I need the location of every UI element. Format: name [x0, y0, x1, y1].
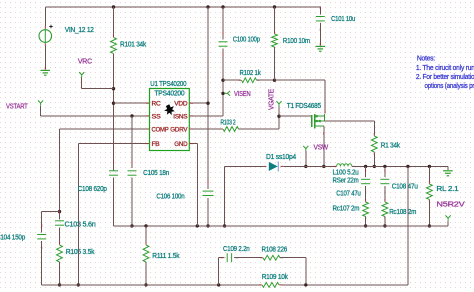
label R105 3.5k [66, 247, 95, 256]
label C107 47u [336, 189, 361, 198]
svg-text:C103 5.6n: C103 5.6n [65, 220, 96, 229]
wire FB net [78, 144, 149, 285]
wire drain lead [323, 126, 325, 166]
junction RL top [428, 165, 431, 168]
ground C101 [316, 42, 326, 51]
wire C101 top lead [319, 7, 321, 14]
capacitor C103 [55, 211, 64, 236]
svg-text:R1 34k: R1 34k [381, 141, 400, 150]
svg-text:1. The cirucit only runs: 1. The cirucit only runs [416, 63, 474, 72]
wire bottom fb [42, 284, 408, 286]
pin GDRV [170, 127, 188, 134]
wire C108b top lead [113, 165, 115, 171]
wire tee to C104 [42, 212, 60, 233]
label VISEN [234, 89, 251, 98]
wire R102 left lead [223, 79, 240, 81]
cursor arrow [164, 104, 175, 115]
wire R111 top lead [145, 226, 147, 244]
wire C108 top lead [384, 166, 386, 177]
resistor R111 [143, 242, 149, 265]
wire diode to VSW [284, 165, 306, 167]
label C101 10u [331, 14, 355, 23]
capacitor C104 [37, 224, 46, 249]
capacitor C105 [128, 161, 137, 186]
wire VIN top lead [44, 7, 46, 29]
label T1 FDS4685 [287, 101, 321, 110]
junction top rail / R101 [112, 5, 115, 8]
node VRC stub [79, 72, 84, 77]
capacitor C101 [316, 6, 325, 31]
svg-text:D1 ss10p4: D1 ss10p4 [266, 152, 296, 161]
wire VIN bottom lead [44, 43, 46, 69]
junction FB/bottom wire [77, 283, 80, 286]
capacitor C106 [203, 181, 214, 206]
resistor R103 [220, 127, 242, 132]
svg-text:VDD: VDD [174, 101, 188, 108]
wire fb tap vertical [407, 166, 409, 285]
junction R105/bottom wire [58, 283, 61, 286]
junction gate/VGATE [277, 115, 280, 118]
svg-text:VSTART: VSTART [6, 102, 28, 111]
wire RL top lead [428, 166, 430, 182]
svg-text:Notes:: Notes: [417, 53, 435, 62]
junction drain/VSW line [322, 165, 325, 168]
svg-text:RSer 22m: RSer 22m [333, 175, 359, 184]
junction GND pin line [196, 224, 199, 227]
svg-text:N5R2V: N5R2V [436, 200, 464, 209]
junction C105/gnd line [130, 224, 133, 227]
wire ISNS pin [189, 115, 223, 117]
junction RC/R101 [112, 102, 115, 105]
svg-text:R102 1k: R102 1k [240, 68, 261, 77]
svg-text:Rc107 2m: Rc107 2m [333, 204, 360, 213]
label D1 ss10p4 [266, 152, 296, 161]
junction C109 left [217, 283, 220, 286]
svg-text:VSW: VSW [314, 143, 329, 152]
svg-text:VISEN: VISEN [234, 89, 251, 98]
wire gnd line [114, 225, 430, 227]
junction RL bottom [428, 224, 431, 227]
label VSTART [6, 102, 28, 111]
resistor Rc107 [363, 199, 369, 220]
svg-text:R108 226: R108 226 [262, 245, 288, 254]
wire VRC to R101 line [82, 78, 114, 89]
wire C105 bottom lead [131, 178, 133, 226]
label C105 18n [143, 168, 169, 177]
svg-text:R100 10m: R100 10m [283, 36, 310, 45]
resistor R108 [260, 255, 283, 260]
junction R111 top [144, 224, 147, 227]
label R102 1k [240, 68, 261, 77]
svg-text:VRC: VRC [78, 57, 93, 66]
label RL 2.1 [436, 184, 458, 193]
label TPS40200 value [154, 90, 184, 97]
node VISEN stub [221, 91, 230, 96]
label C104 150p [0, 232, 25, 241]
label C108 47u [392, 182, 418, 191]
wire R108 right lead [280, 258, 306, 285]
pin RC [152, 101, 162, 108]
label U1 TPS40200 [150, 79, 186, 88]
wire C103 to R105 [59, 227, 61, 243]
label R108 226 [262, 245, 288, 254]
resistor R102 [239, 78, 260, 83]
svg-text:SS: SS [152, 113, 161, 120]
label R111 1.5k [152, 251, 179, 260]
wire R101 top lead [113, 7, 115, 36]
pin ISNS [173, 113, 187, 120]
label R100 10m [283, 36, 310, 45]
svg-text:options (analysis pro: options (analysis pro [425, 81, 474, 90]
wire Rc108 bottom lead [384, 217, 386, 226]
svg-text:Rc108 2m: Rc108 2m [389, 207, 416, 216]
wire R111 bottom lead [145, 262, 147, 285]
svg-text:C109 2.2n: C109 2.2n [223, 244, 250, 253]
capacitor C108 [380, 169, 389, 194]
inductor L100 [334, 164, 355, 167]
node VGATE stub [276, 101, 281, 114]
junction C108 top [383, 165, 386, 168]
wire C109 to R108 [234, 257, 262, 259]
node N5R2V stub [446, 215, 451, 220]
junction R102/C100 line [221, 79, 224, 82]
label Rc108 2m [389, 207, 416, 216]
wire R105 bottom lead [59, 262, 61, 285]
wire C108b bottom lead [113, 178, 115, 226]
wire R103 to gate corner [239, 116, 280, 129]
wire Rc107 bottom lead [365, 217, 367, 226]
svg-text:C107 47u: C107 47u [336, 189, 361, 198]
junction COMP tee [58, 210, 61, 213]
wire C101 bottom lead [319, 23, 321, 45]
transistor T1 FDS4685 [312, 114, 325, 129]
note title [417, 53, 435, 62]
svg-text:VIN_12 12: VIN_12 12 [65, 25, 94, 34]
junction R1/out line [373, 165, 376, 168]
wire R100 bottom lead [274, 47, 276, 80]
junction Rc107 bottom [364, 224, 367, 227]
junction VRC/R101 [112, 87, 115, 90]
wire C105 top lead [131, 116, 133, 168]
voltage source VIN_12 [39, 25, 53, 44]
pin GND [174, 141, 188, 148]
capacitor C109 [221, 253, 239, 262]
diode D1 [264, 161, 284, 171]
resistor RL [427, 181, 433, 203]
label C108 620p [78, 184, 107, 193]
junction top rail / VDD line [206, 5, 209, 8]
junction riser/gnd line [223, 224, 226, 227]
junction R111 bottom [144, 283, 147, 286]
resistor R101 [111, 35, 117, 57]
label C106 100n [156, 191, 184, 200]
junction SS/C105 [130, 114, 133, 117]
label R103 2 [221, 117, 236, 126]
junction VSW [304, 165, 307, 168]
ground out [443, 166, 453, 175]
wire source lead [275, 80, 326, 113]
junction C107 top [364, 165, 367, 168]
resistor R100 [272, 31, 278, 50]
svg-text:COMP: COMP [152, 127, 169, 134]
svg-text:FB: FB [152, 141, 160, 148]
wire C108 to Rc108 [384, 186, 386, 200]
svg-text:RC: RC [152, 101, 162, 108]
wire C104 bottom lead [41, 241, 43, 285]
junction Rc108 bottom [383, 224, 386, 227]
wire C106 bottom lead [207, 198, 209, 226]
label VSW [314, 143, 329, 152]
label Rc107 2m [333, 204, 360, 213]
label R1 34k [381, 141, 400, 150]
junction R108 bottom [304, 283, 307, 286]
op-amp U1 TPS40200 box [150, 89, 190, 151]
wire C107 top lead [365, 166, 367, 177]
svg-text:C101 10u: C101 10u [331, 14, 355, 23]
wire R100 top lead [274, 7, 276, 32]
wire out line [352, 165, 448, 167]
wire RL bottom lead [428, 200, 430, 226]
note line 3 [425, 81, 474, 90]
pin SS [152, 113, 161, 120]
capacitor C107 [361, 169, 370, 194]
wire C109 riser [219, 258, 225, 285]
label VGATE [266, 89, 275, 110]
wire GND pin [189, 144, 197, 226]
junction fb tap [406, 165, 409, 168]
capacitor C100 [219, 32, 228, 57]
pin FB [152, 141, 160, 148]
node VSTART stub [38, 100, 43, 105]
label C100 100p [233, 35, 260, 44]
pin COMP [152, 127, 169, 134]
label C103 5.6n [65, 220, 96, 229]
wire GDRV pin [189, 128, 220, 130]
junction top rail / R100 line [273, 5, 276, 8]
wire VSW stub lead [305, 151, 307, 166]
ground VIN [41, 66, 51, 75]
wire RC pin [114, 102, 150, 104]
resistor Rc108 [382, 199, 388, 220]
label VRC [78, 57, 93, 66]
svg-text:C108 47u: C108 47u [392, 182, 418, 191]
wire R102 right lead [257, 79, 275, 81]
wire R1 net [324, 121, 374, 134]
label N5R2V [436, 200, 464, 209]
label RSer 22m [333, 175, 359, 184]
wire VSW to L100 [306, 165, 337, 167]
label L100 5.2u [333, 168, 359, 177]
svg-text:RL 2.1: RL 2.1 [436, 184, 458, 193]
wire gnd riser [225, 166, 264, 226]
svg-text:R105 3.5k: R105 3.5k [66, 247, 95, 256]
wire VDD pin [189, 102, 208, 104]
junction top rail / C100 line [221, 5, 224, 8]
resistor R1 [371, 133, 377, 155]
svg-text:R111 1.5k: R111 1.5k [152, 251, 179, 260]
resistor R105 [57, 242, 63, 265]
svg-text:R103 2: R103 2 [221, 117, 236, 126]
svg-text:C100 100p: C100 100p [233, 35, 260, 44]
wire to N5R2V stub [429, 221, 448, 226]
label C109 2.2n [223, 244, 250, 253]
wire R101 to RC [113, 55, 115, 165]
wire COMP net [60, 129, 150, 219]
note line 1 [416, 63, 474, 72]
label VIN_12 12 [65, 25, 94, 34]
svg-text:C105 18n: C105 18n [143, 168, 169, 177]
svg-text:T1 FDS4685: T1 FDS4685 [287, 101, 321, 110]
svg-text:C104 150p: C104 150p [0, 232, 25, 241]
junction C106/gnd line [206, 224, 209, 227]
resistor R109 [259, 283, 282, 288]
wire C100 vertical [222, 7, 224, 116]
svg-text:VGATE: VGATE [266, 89, 275, 110]
wire SS net [41, 106, 150, 116]
svg-text:ISNS: ISNS [173, 113, 187, 120]
svg-text:GDRV: GDRV [170, 127, 188, 134]
pin VDD [174, 101, 188, 108]
node VSW stub [303, 146, 308, 151]
capacitor C108 620p [109, 161, 118, 186]
label R109 10k [262, 272, 288, 281]
svg-text:C106 100n: C106 100n [156, 191, 184, 200]
label R101 34k [120, 40, 146, 49]
svg-text:GND: GND [174, 141, 188, 148]
svg-text:R109 10k: R109 10k [262, 272, 288, 281]
svg-text:R101 34k: R101 34k [120, 40, 146, 49]
wire R1 bottom lead [373, 154, 375, 167]
wire VDD vertical [207, 7, 209, 189]
svg-text:TPS40200: TPS40200 [154, 90, 184, 97]
wire C107 to Rc107 [365, 186, 367, 200]
junction R102/R100 [273, 79, 276, 82]
note line 2 [416, 72, 474, 81]
svg-text:U1 TPS40200: U1 TPS40200 [150, 79, 186, 88]
wire top VIN rail [45, 6, 320, 8]
svg-text:C108 620p: C108 620p [78, 184, 107, 193]
wire gate lead [279, 115, 311, 117]
junction VDD [206, 102, 209, 105]
